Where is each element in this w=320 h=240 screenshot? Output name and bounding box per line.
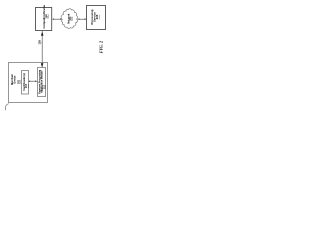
arrowhead down into box C2	[41, 63, 44, 67]
wire: double arrow box A to cloud	[53, 18, 62, 20]
svg-text:204: 204	[45, 14, 48, 19]
svg-text:105: 105	[37, 40, 41, 45]
svg-text:210: 210	[25, 83, 28, 88]
wire: link line box A to box C2	[41, 31, 43, 67]
wire: double arrow C1 to C2	[29, 80, 37, 82]
cloud: network	[61, 9, 78, 29]
svg-text:212: 212	[43, 84, 46, 89]
box C: merchant device (outer, bottom-left)	[9, 63, 48, 103]
wire: double arrow cloud to box B	[78, 18, 86, 20]
svg-text:206: 206	[70, 16, 73, 21]
stray tick above box A	[43, 5, 45, 7]
svg-text:202: 202	[18, 79, 21, 84]
box C1: card reader (inner left)	[22, 71, 29, 95]
box B: payment service provider (top-right)	[87, 6, 106, 30]
node 200 reference leader curve	[5, 104, 8, 111]
leader tick for 105	[41, 41, 42, 44]
svg-text:FIG. 2: FIG. 2	[99, 40, 104, 53]
svg-text:Device: Device	[13, 75, 16, 84]
arrowhead up into box A	[41, 32, 44, 36]
svg-text:208: 208	[95, 14, 99, 19]
box A: customer device (top-left)	[36, 8, 52, 31]
box C2: payment application (inner right)	[38, 68, 46, 97]
